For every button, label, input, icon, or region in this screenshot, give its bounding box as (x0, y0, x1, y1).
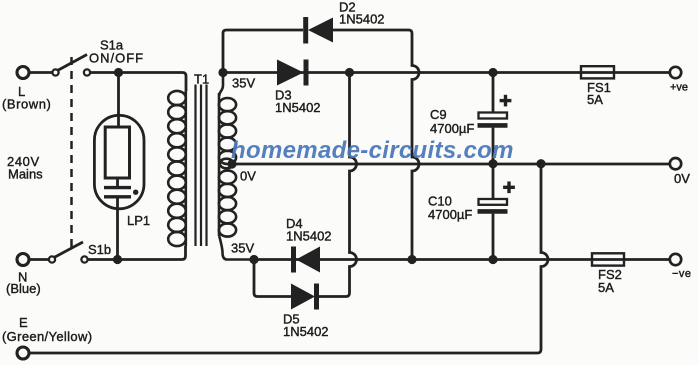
svg-text:LP1: LP1 (127, 213, 150, 228)
svg-text:4700µF: 4700µF (430, 121, 474, 136)
svg-text:ON/OFF: ON/OFF (89, 51, 144, 66)
svg-text:E: E (19, 315, 28, 330)
svg-text:1N5402: 1N5402 (275, 100, 321, 115)
svg-text:C9: C9 (430, 107, 447, 122)
svg-text:Mains: Mains (8, 167, 43, 182)
svg-text:−ve: −ve (672, 268, 692, 280)
svg-text:(Blue): (Blue) (6, 281, 41, 296)
svg-text:5A: 5A (587, 92, 603, 107)
svg-text:5A: 5A (598, 280, 614, 295)
svg-text:S1b: S1b (88, 242, 111, 257)
svg-text:1N5402: 1N5402 (286, 229, 332, 244)
svg-text:0V: 0V (240, 169, 256, 184)
svg-text:+ve: +ve (670, 82, 688, 94)
svg-text:homemade-circuits.com: homemade-circuits.com (231, 137, 514, 164)
svg-text:(Brown): (Brown) (2, 97, 51, 112)
svg-text:1N5402: 1N5402 (339, 12, 385, 27)
svg-text:1N5402: 1N5402 (283, 324, 329, 339)
svg-text:(Green/Yellow): (Green/Yellow) (2, 329, 92, 344)
svg-text:T1: T1 (194, 72, 209, 87)
svg-text:35V: 35V (231, 241, 254, 256)
svg-text:0V: 0V (674, 171, 690, 186)
svg-text:35V: 35V (232, 76, 255, 91)
svg-text:4700µF: 4700µF (428, 207, 472, 222)
